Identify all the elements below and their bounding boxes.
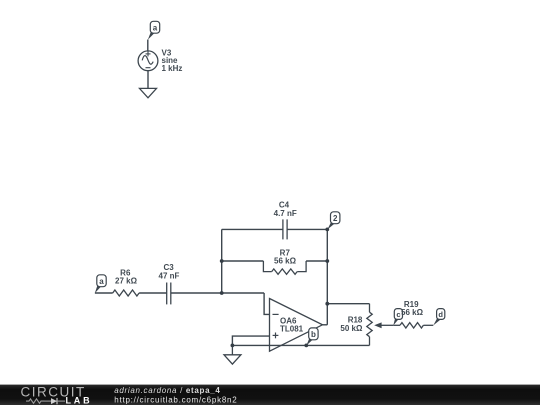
wire (221, 229, 223, 293)
svg-text:2: 2 (333, 214, 338, 223)
svg-text:a: a (99, 277, 104, 286)
junction output / R18 top branch (325, 302, 329, 306)
op-amp inverting input marker (273, 313, 279, 315)
wire (327, 303, 369, 305)
node 2 (327, 212, 340, 230)
svg-text:TL081: TL081 (280, 325, 304, 334)
wire (326, 229, 328, 324)
voltage source V3 (138, 51, 158, 71)
svg-text:LAB: LAB (66, 396, 93, 405)
wire (147, 71, 149, 89)
svg-text:56 kΩ: 56 kΩ (401, 308, 424, 317)
svg-text:4.7 nF: 4.7 nF (274, 209, 297, 218)
footer bar (0, 385, 540, 405)
svg-text:d: d (438, 310, 443, 319)
op-amp non-inverting input marker (273, 333, 279, 339)
wire (139, 292, 167, 294)
wire (147, 40, 149, 51)
junction ground / op-amp + input (231, 344, 235, 348)
svg-text:b: b (311, 330, 316, 339)
svg-text:50 kΩ: 50 kΩ (340, 324, 363, 333)
wire (264, 293, 269, 314)
potentiometer R18 (367, 304, 393, 346)
svg-text:http://circuitlab.com/c6pk8n2: http://circuitlab.com/c6pk8n2 (114, 396, 237, 405)
wire (287, 228, 327, 230)
svg-text:adrian.cardona / etapa_4: adrian.cardona / etapa_4 (114, 386, 220, 395)
svg-text:27 kΩ: 27 kΩ (115, 277, 138, 286)
wire (222, 260, 264, 262)
svg-text:a: a (153, 23, 158, 32)
wire (222, 228, 283, 230)
node b (306, 328, 318, 346)
node c (393, 309, 402, 326)
node a (left) (95, 275, 106, 293)
junction R7 right (325, 259, 329, 263)
capacitor C3 (167, 283, 171, 305)
resistor R6 (113, 290, 139, 296)
node a (top) (148, 21, 160, 39)
wire (95, 292, 113, 294)
resistor R19 (393, 323, 433, 328)
wire (306, 260, 327, 262)
op-amp OA6 body (270, 299, 323, 352)
ground (224, 345, 241, 364)
junction node b (304, 344, 308, 348)
junction at C3 output / feedback left leg (220, 291, 224, 295)
ground (140, 88, 157, 97)
capacitor C4 (283, 219, 287, 239)
wire (323, 324, 328, 326)
svg-text:56 kΩ: 56 kΩ (274, 257, 297, 266)
wire (232, 336, 269, 345)
svg-text:1 kHz: 1 kHz (162, 64, 183, 73)
svg-text:c: c (396, 310, 400, 319)
resistor R7 (263, 261, 306, 274)
svg-text:47 nF: 47 nF (159, 271, 180, 280)
junction node 2 / C4 right (325, 228, 329, 232)
junction R7 left (220, 259, 224, 263)
wire (232, 344, 369, 346)
wire (171, 292, 264, 294)
CircuitLab logo wordmark (21, 385, 93, 405)
node d (433, 309, 445, 326)
